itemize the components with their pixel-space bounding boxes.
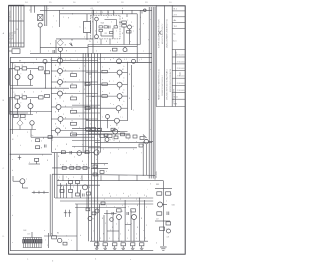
wire outstage v4 xyxy=(71,192,73,198)
ground RG6 a xyxy=(140,247,144,249)
wire cellC h3 xyxy=(31,125,33,129)
resistor cellAb xyxy=(22,67,27,70)
center bus V3 xyxy=(88,53,90,241)
wire H163r xyxy=(91,163,108,165)
resistor RD5 xyxy=(76,193,80,196)
svg-text:R: R xyxy=(72,95,73,97)
diode cellC diamond xyxy=(17,120,23,126)
wire TL5 stub xyxy=(58,110,60,113)
module inner stub xyxy=(116,20,118,26)
wire cellA da xyxy=(17,80,19,86)
resistor bridge 2 xyxy=(85,107,90,110)
resistor RB1 xyxy=(36,139,40,142)
wire R14 left xyxy=(119,21,122,23)
transistor cellBQa xyxy=(15,104,20,109)
module wire 1 xyxy=(96,21,98,35)
capacitor CLow1 bar xyxy=(64,212,67,214)
resistor RB3 xyxy=(36,146,40,149)
wire TL1 in xyxy=(51,60,57,62)
wire H147 xyxy=(88,147,137,149)
top stub pair wire a xyxy=(30,5,32,13)
junction dot 19 xyxy=(118,241,119,242)
right column rail 2 xyxy=(131,65,133,110)
comb resistor 3 xyxy=(27,240,29,244)
resistor RG6 xyxy=(140,243,144,246)
wire TL3 stub xyxy=(59,85,61,88)
svg-text:T: T xyxy=(158,40,159,42)
wire cellA midb xyxy=(27,67,39,69)
comb tooth wire 4 xyxy=(29,238,31,248)
resistor RV1 xyxy=(86,208,90,211)
svg-text:1024: 1024 xyxy=(15,31,17,34)
wire RG1 down xyxy=(96,246,98,248)
resistor R17 xyxy=(113,48,118,51)
svg-text:29 301-044.06: 29 301-044.06 xyxy=(177,90,186,92)
capacitor CLow2 stem xyxy=(69,210,71,217)
resistor RG2 xyxy=(103,243,107,246)
junction dot 6 xyxy=(88,93,89,94)
transistor TR3 xyxy=(117,82,122,87)
resistor RB8 xyxy=(85,151,89,154)
wire top drop x59 xyxy=(59,10,61,27)
wire row111 link xyxy=(10,110,52,112)
wire TL6 out xyxy=(63,118,98,120)
transistor TE2 xyxy=(132,215,137,220)
resistor RD1 xyxy=(69,180,73,183)
wire cellA bottom xyxy=(10,85,33,87)
svg-text:2k: 2k xyxy=(89,41,91,43)
wire comb-right v xyxy=(48,233,50,248)
svg-text:Tag: Tag xyxy=(173,34,175,36)
module inner rect b xyxy=(114,26,118,28)
capacitor C10 plate a xyxy=(108,26,110,29)
transistor TL5 xyxy=(56,105,61,110)
comb resistor 5 xyxy=(32,240,34,244)
svg-text:IC1: IC1 xyxy=(105,33,108,35)
comb resistor 8 xyxy=(38,240,40,244)
title block divider 1 xyxy=(172,10,185,12)
resistor RB6b xyxy=(133,135,137,138)
wire TL2 in xyxy=(51,70,57,72)
transistor T1 xyxy=(38,23,42,27)
transistor TA1 on bus xyxy=(43,59,47,63)
transistor T5 xyxy=(128,25,132,29)
svg-text:+: + xyxy=(11,111,12,113)
wire TR6 stub xyxy=(116,123,118,126)
title strip line 3 xyxy=(171,5,173,106)
svg-text:C: C xyxy=(103,241,104,243)
resistor bridge 1 xyxy=(85,83,90,86)
svg-text:NF: NF xyxy=(19,61,21,63)
svg-text:R: R xyxy=(63,165,64,167)
svg-text:B: B xyxy=(55,76,56,78)
capacitor CE2 plate a xyxy=(126,212,128,215)
svg-text:B: B xyxy=(55,65,56,67)
transistor TE3 xyxy=(95,209,99,213)
svg-text:SICHERH.: SICHERH. xyxy=(156,170,158,178)
resistor RC2 xyxy=(62,166,66,169)
title block divider 8 xyxy=(172,70,185,72)
transistor cellAQa xyxy=(15,75,20,80)
junction v x93 xyxy=(92,10,94,53)
wire Vpair a xyxy=(49,174,51,236)
resistor RM1 xyxy=(98,128,102,131)
capacitor CD1 plate a xyxy=(82,194,84,197)
svg-text:T: T xyxy=(58,67,59,69)
transistor TL3 xyxy=(58,80,63,85)
junction dot 1 xyxy=(71,39,72,40)
svg-text:T: T xyxy=(59,115,60,117)
wire TR4 stub xyxy=(119,99,121,102)
wire TL5 in xyxy=(51,106,56,108)
transistor TR4 xyxy=(117,94,122,99)
wire cellC h xyxy=(10,129,36,131)
bus wire V-right 1 xyxy=(148,7,150,179)
capacitor CH1 plate b xyxy=(168,212,170,216)
svg-text:TE 2: TE 2 xyxy=(174,26,177,28)
wire cellB da xyxy=(17,109,19,115)
svg-text:R: R xyxy=(83,165,84,167)
transistor TF1 xyxy=(58,238,62,242)
ground RG2 b xyxy=(104,248,106,250)
transistor TL4 xyxy=(58,91,63,96)
svg-text:F: F xyxy=(139,29,140,31)
wire TE1 down xyxy=(118,220,120,242)
wire H198 xyxy=(55,197,153,199)
capacitor CB1 plate b xyxy=(45,145,47,148)
ground RG4 a xyxy=(121,247,125,249)
wire jog 2 xyxy=(92,96,95,98)
parts table outline xyxy=(9,5,24,47)
svg-text:a b: a b xyxy=(29,10,31,12)
svg-text:TEIL-NR 274: TEIL-NR 274 xyxy=(12,32,14,40)
svg-text:B: B xyxy=(55,124,56,126)
wire TL6 stub xyxy=(60,122,62,125)
wire TL2 stub xyxy=(59,74,61,77)
center bus V6 xyxy=(97,53,99,248)
svg-text:T: T xyxy=(21,74,22,76)
wire T2 down xyxy=(59,52,61,63)
strip symbol arrow xyxy=(158,31,161,36)
wire diamond up xyxy=(59,38,61,41)
ground RG6 b xyxy=(141,248,143,250)
resistor RC7 xyxy=(100,171,104,174)
ground fragment line2 xyxy=(161,248,165,250)
resistor RL1 xyxy=(71,74,77,77)
wire center cross 4 xyxy=(72,134,100,136)
comb resistor 6 xyxy=(34,240,36,244)
diode D2 diamond xyxy=(57,40,63,46)
wire Vpair b xyxy=(51,174,53,236)
wire center cross 3 xyxy=(72,128,100,130)
transistor T7 xyxy=(123,48,127,52)
svg-text:OSZILLOGRAMM UEBERSICHT 21: OSZILLOGRAMM UEBERSICHT 21 xyxy=(166,19,169,48)
transistor TM0 xyxy=(106,115,110,119)
wire H167 xyxy=(52,167,90,169)
connector K1 box xyxy=(12,49,20,54)
transistor TB2 xyxy=(94,150,99,155)
svg-text:C: C xyxy=(113,241,114,243)
title strip line 2 xyxy=(164,5,166,106)
diode arrow RBx xyxy=(143,135,147,139)
svg-text:T: T xyxy=(26,179,27,181)
bottom bus 1 xyxy=(10,250,153,252)
capacitor CH1 plate a xyxy=(166,212,168,216)
wire cellB left xyxy=(9,97,11,114)
ground RG2 a xyxy=(103,247,107,249)
svg-text:T: T xyxy=(128,206,129,208)
resistor RC6 xyxy=(93,165,97,168)
module wire 3 xyxy=(101,35,113,37)
wire center cross 2 xyxy=(72,112,100,114)
title block divider 4 xyxy=(172,28,185,30)
capacitor CE1 plate a xyxy=(111,212,113,215)
comb resistor 9 xyxy=(40,240,42,244)
junction dot 22 xyxy=(83,57,84,58)
wire TB1 link xyxy=(149,141,154,143)
wire cellB mid xyxy=(20,96,23,98)
wire cell-col vertical xyxy=(44,63,46,89)
transistor TB3 xyxy=(77,151,82,156)
junction dot 20 xyxy=(133,241,134,242)
wire TL7 out xyxy=(60,130,97,132)
ground fragment line1 xyxy=(160,246,167,248)
transistor TV1 xyxy=(88,217,92,221)
junction dot 11 xyxy=(10,111,11,112)
resistor bridge 4 xyxy=(91,128,96,131)
svg-text:T: T xyxy=(118,128,119,130)
junction dot 9 xyxy=(97,130,98,131)
junction dot 2 xyxy=(92,10,93,11)
wire link231 xyxy=(107,230,119,232)
bus wire H-top 2 xyxy=(60,13,137,15)
crystal X1 cross b xyxy=(38,15,44,21)
resistor cellAa xyxy=(15,67,20,70)
capacitor mark left stem xyxy=(19,155,21,160)
wire TB1 down xyxy=(142,142,144,176)
left rail wire 2 xyxy=(12,63,14,135)
resistor bridge 3 xyxy=(86,128,91,131)
capacitor small CL1 xyxy=(45,71,50,74)
wire hop1 xyxy=(62,175,64,180)
wire TR3 out xyxy=(122,84,127,86)
wire cellB bottom xyxy=(10,114,33,116)
column rail left xyxy=(50,57,52,152)
wire V99 ext xyxy=(99,204,101,241)
module stub 2 xyxy=(100,10,102,15)
capacitor CE2 plate b xyxy=(128,212,130,215)
svg-text:T: T xyxy=(58,89,59,91)
capacitor C10 plate b xyxy=(109,26,111,29)
bus wire H 62 xyxy=(10,62,152,64)
resistor RE1 xyxy=(117,209,122,212)
wire hop5 xyxy=(136,175,138,180)
wire hop3 xyxy=(100,175,102,180)
junction dot 16 xyxy=(125,203,126,204)
wire TR4 out xyxy=(122,95,127,97)
title strip line 4 xyxy=(175,50,177,107)
comb resistor 4 xyxy=(29,240,31,244)
wire cellC v xyxy=(19,118,21,121)
transistor TH1 xyxy=(158,202,163,207)
title block divider 9 xyxy=(172,77,185,79)
wire TL4 in xyxy=(51,93,57,95)
wire RD down1 xyxy=(70,184,72,190)
resistor R10 xyxy=(99,26,103,28)
transistor TL2 xyxy=(58,69,63,74)
junction dot 15 xyxy=(94,200,95,201)
wire TM0 stub xyxy=(107,119,109,129)
resistor RD6 xyxy=(87,192,91,195)
resistor RE3 xyxy=(101,202,105,205)
wire TE2 down xyxy=(133,220,135,242)
wire H168r xyxy=(91,168,108,170)
svg-text:T: T xyxy=(166,201,167,203)
title block divider 7 xyxy=(172,63,185,65)
module wire 2 xyxy=(100,32,102,36)
wire TL6 in xyxy=(51,118,58,120)
wire TR7 in xyxy=(86,131,113,133)
connector ring top xyxy=(144,9,147,12)
transistor TA3 on bus xyxy=(132,59,136,63)
transistor TR7 xyxy=(113,129,118,134)
wire RC1 down xyxy=(36,161,38,164)
svg-text:T: T xyxy=(123,81,124,83)
resistor RC3 xyxy=(70,166,74,169)
resistor RG3 xyxy=(113,243,117,246)
wire TL1 out xyxy=(63,60,98,62)
capacitor CB2 plate b xyxy=(71,151,73,154)
svg-text:C: C xyxy=(121,241,122,243)
comb tooth wire 7 xyxy=(36,238,38,248)
junction dot cellv xyxy=(45,88,46,89)
comb resistor 1 xyxy=(23,240,25,244)
bus wire H 57 xyxy=(10,56,152,58)
bus wire V-right 4 xyxy=(154,7,156,180)
resistor RB7 xyxy=(61,151,65,154)
title block divider 6 xyxy=(172,56,185,58)
crystal X1 cross a xyxy=(38,15,44,21)
wire H204 xyxy=(75,203,153,205)
wire TL7 stub xyxy=(57,133,59,136)
resistor RL4 xyxy=(71,110,77,113)
svg-text:T: T xyxy=(110,140,111,142)
module MOD1 box xyxy=(91,15,121,39)
svg-text:0,1: 0,1 xyxy=(62,8,64,10)
resistor RBx2 xyxy=(121,133,125,136)
wire TR2 stub xyxy=(119,75,121,78)
wire TL4 stub xyxy=(59,96,61,99)
transistor cellBQb xyxy=(28,104,33,109)
svg-text:R-N: R-N xyxy=(24,230,27,232)
resistor R16 xyxy=(127,31,132,33)
wire H201 xyxy=(60,200,153,202)
resistor RB6c xyxy=(139,144,143,147)
svg-text:0,47: 0,47 xyxy=(156,219,159,221)
wire TR3 in xyxy=(86,84,117,86)
wire H207 xyxy=(75,207,126,209)
bus wire H-mid 1 xyxy=(56,38,93,40)
svg-text:FARBFERNSEH CHASSIS FM 100-21: FARBFERNSEH CHASSIS FM 100-21 xyxy=(158,69,161,100)
wire cellB top xyxy=(10,96,15,98)
transistor TE1 xyxy=(117,215,122,220)
resistor RM3 xyxy=(111,128,115,131)
svg-text:1973: 1973 xyxy=(174,103,178,105)
svg-text:R: R xyxy=(72,131,73,133)
wire H185 xyxy=(57,184,100,186)
transistor TB1 xyxy=(144,139,148,143)
resistor RC5 xyxy=(83,166,87,169)
wire D1 top xyxy=(86,14,88,22)
transistor T3 xyxy=(95,17,99,21)
svg-text:R: R xyxy=(72,109,73,111)
transistor TM1 xyxy=(105,138,109,142)
svg-text:Name: Name xyxy=(180,72,182,76)
diode arrow a xyxy=(70,43,73,46)
parts table column line 5 xyxy=(20,5,22,47)
wire TR4 in xyxy=(86,95,117,97)
parts table divider 2 xyxy=(9,42,24,44)
resistor RV2 xyxy=(92,212,96,215)
ground RG4 b xyxy=(122,248,124,250)
vertical wire x137 xyxy=(136,14,138,63)
junction dot 10 xyxy=(51,88,52,89)
bus wire H 47 xyxy=(40,47,88,49)
wire RG3 down xyxy=(114,246,116,248)
wire TR7 out xyxy=(118,131,128,133)
transistor TR2 xyxy=(117,70,122,75)
wire TR5 in xyxy=(86,107,116,109)
svg-text:B: B xyxy=(55,99,56,101)
wire TLow left xyxy=(13,180,20,182)
svg-text:T1: T1 xyxy=(44,25,46,27)
capacitor CLow2 bar xyxy=(68,212,71,214)
wire cellA vb xyxy=(30,70,32,75)
svg-text:a: a xyxy=(158,26,159,28)
wire TL7 in xyxy=(51,130,55,132)
wire cellB midb xyxy=(27,96,39,98)
svg-text:R: R xyxy=(72,121,73,123)
transistor TD1 xyxy=(83,185,88,190)
svg-text:R801: R801 xyxy=(156,184,160,186)
title block divider 12 xyxy=(172,98,185,100)
svg-text:C: C xyxy=(140,241,141,243)
wire TB1 down2 xyxy=(145,144,147,176)
comb tooth wire 9 xyxy=(40,238,42,248)
svg-text:B: B xyxy=(55,112,56,114)
capacitor small CL2 xyxy=(45,95,50,98)
wire jog 1 xyxy=(89,73,92,75)
svg-text:S: S xyxy=(140,17,141,19)
wire TR2 in xyxy=(86,72,117,74)
crystal X1 box xyxy=(38,15,44,21)
wire TLow down xyxy=(21,184,23,188)
wire TL3 in xyxy=(51,81,57,83)
wire H131 xyxy=(88,131,120,133)
column rail lower xyxy=(54,153,56,198)
wire jog 3 xyxy=(86,119,89,121)
small marks row xyxy=(32,191,49,193)
svg-text:29 301-044.01: 29 301-044.01 xyxy=(177,55,186,57)
ground fragment line3 xyxy=(162,249,164,251)
comb tooth wire 3 xyxy=(27,238,29,248)
junction dot 3 xyxy=(60,62,61,63)
resistor RH4 xyxy=(160,227,165,230)
wire D1 down xyxy=(86,33,88,40)
resistor RB5 xyxy=(107,134,112,137)
junction dot 14 xyxy=(88,197,89,198)
junction dot 8 xyxy=(85,118,86,119)
